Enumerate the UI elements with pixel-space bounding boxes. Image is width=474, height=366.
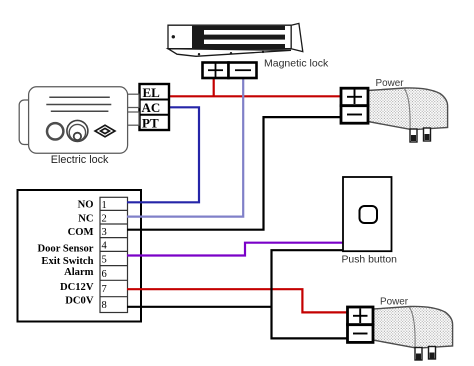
svg-text:COM: COM (68, 227, 94, 238)
svg-text:5: 5 (102, 255, 107, 266)
svg-text:Electric lock: Electric lock (51, 154, 109, 166)
svg-text:6: 6 (102, 269, 107, 280)
svg-text:Exit Switch: Exit Switch (41, 256, 93, 267)
svg-text:NO: NO (78, 200, 94, 211)
svg-text:DC0V: DC0V (65, 296, 94, 307)
svg-text:4: 4 (102, 241, 108, 252)
svg-text:Magnetic lock: Magnetic lock (264, 58, 329, 70)
svg-text:1: 1 (102, 200, 107, 211)
svg-text:AC: AC (142, 100, 161, 115)
svg-text:3: 3 (102, 227, 107, 238)
svg-text:7: 7 (102, 284, 107, 295)
svg-text:2: 2 (102, 214, 107, 225)
svg-text:Alarm: Alarm (64, 267, 94, 278)
svg-text:NC: NC (78, 214, 93, 225)
svg-text:Push button: Push button (342, 255, 398, 266)
svg-text:Door Sensor: Door Sensor (37, 244, 93, 255)
svg-text:DC12V: DC12V (60, 282, 94, 293)
svg-text:8: 8 (102, 300, 107, 311)
svg-text:Power: Power (380, 297, 409, 308)
svg-text:EL: EL (143, 85, 161, 100)
svg-text:Power: Power (376, 78, 405, 89)
svg-text:PT: PT (142, 116, 159, 131)
